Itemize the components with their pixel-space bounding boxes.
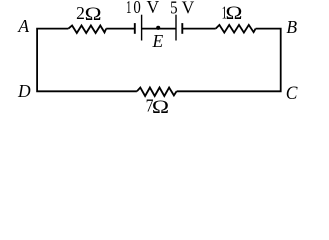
svg-text:V: V: [146, 0, 159, 17]
node E junction dot: [156, 26, 160, 30]
svg-text:1: 1: [126, 0, 131, 18]
svg-text:D: D: [17, 81, 31, 101]
wire: battery V2 to resistor R2: [182, 28, 215, 30]
battery V2 long plate (positive terminal): [175, 15, 177, 41]
svg-text:B: B: [286, 17, 297, 37]
wire: right side loop B-C with corners (top-right B corner, bottom-right C corner): [177, 29, 281, 92]
wire: resistor R1 to battery V1: [106, 28, 134, 30]
svg-text:2: 2: [76, 3, 85, 23]
battery V1 short plate (negative terminal): [134, 23, 136, 34]
svg-text:V: V: [182, 0, 195, 18]
battery V1 long plate (positive terminal): [141, 15, 143, 41]
svg-text:Ω: Ω: [85, 3, 102, 25]
wire: battery V1 through node E to battery V2: [142, 28, 176, 30]
resistor R2 1Ω zigzag: [216, 25, 256, 33]
battery V2 short plate (negative terminal): [181, 23, 183, 34]
svg-text:5: 5: [170, 0, 177, 18]
resistor R1 2Ω zigzag: [68, 26, 106, 34]
svg-text:A: A: [17, 16, 29, 36]
svg-text:E: E: [152, 31, 164, 51]
svg-text:C: C: [286, 83, 298, 104]
svg-text:0: 0: [133, 0, 140, 17]
wire: left side loop A-D with corners (top-left A corner, bottom-left D corner): [37, 29, 137, 92]
svg-text:Ω: Ω: [225, 2, 242, 24]
svg-text:Ω: Ω: [152, 96, 169, 117]
resistor R3 7Ω zigzag: [137, 88, 177, 97]
